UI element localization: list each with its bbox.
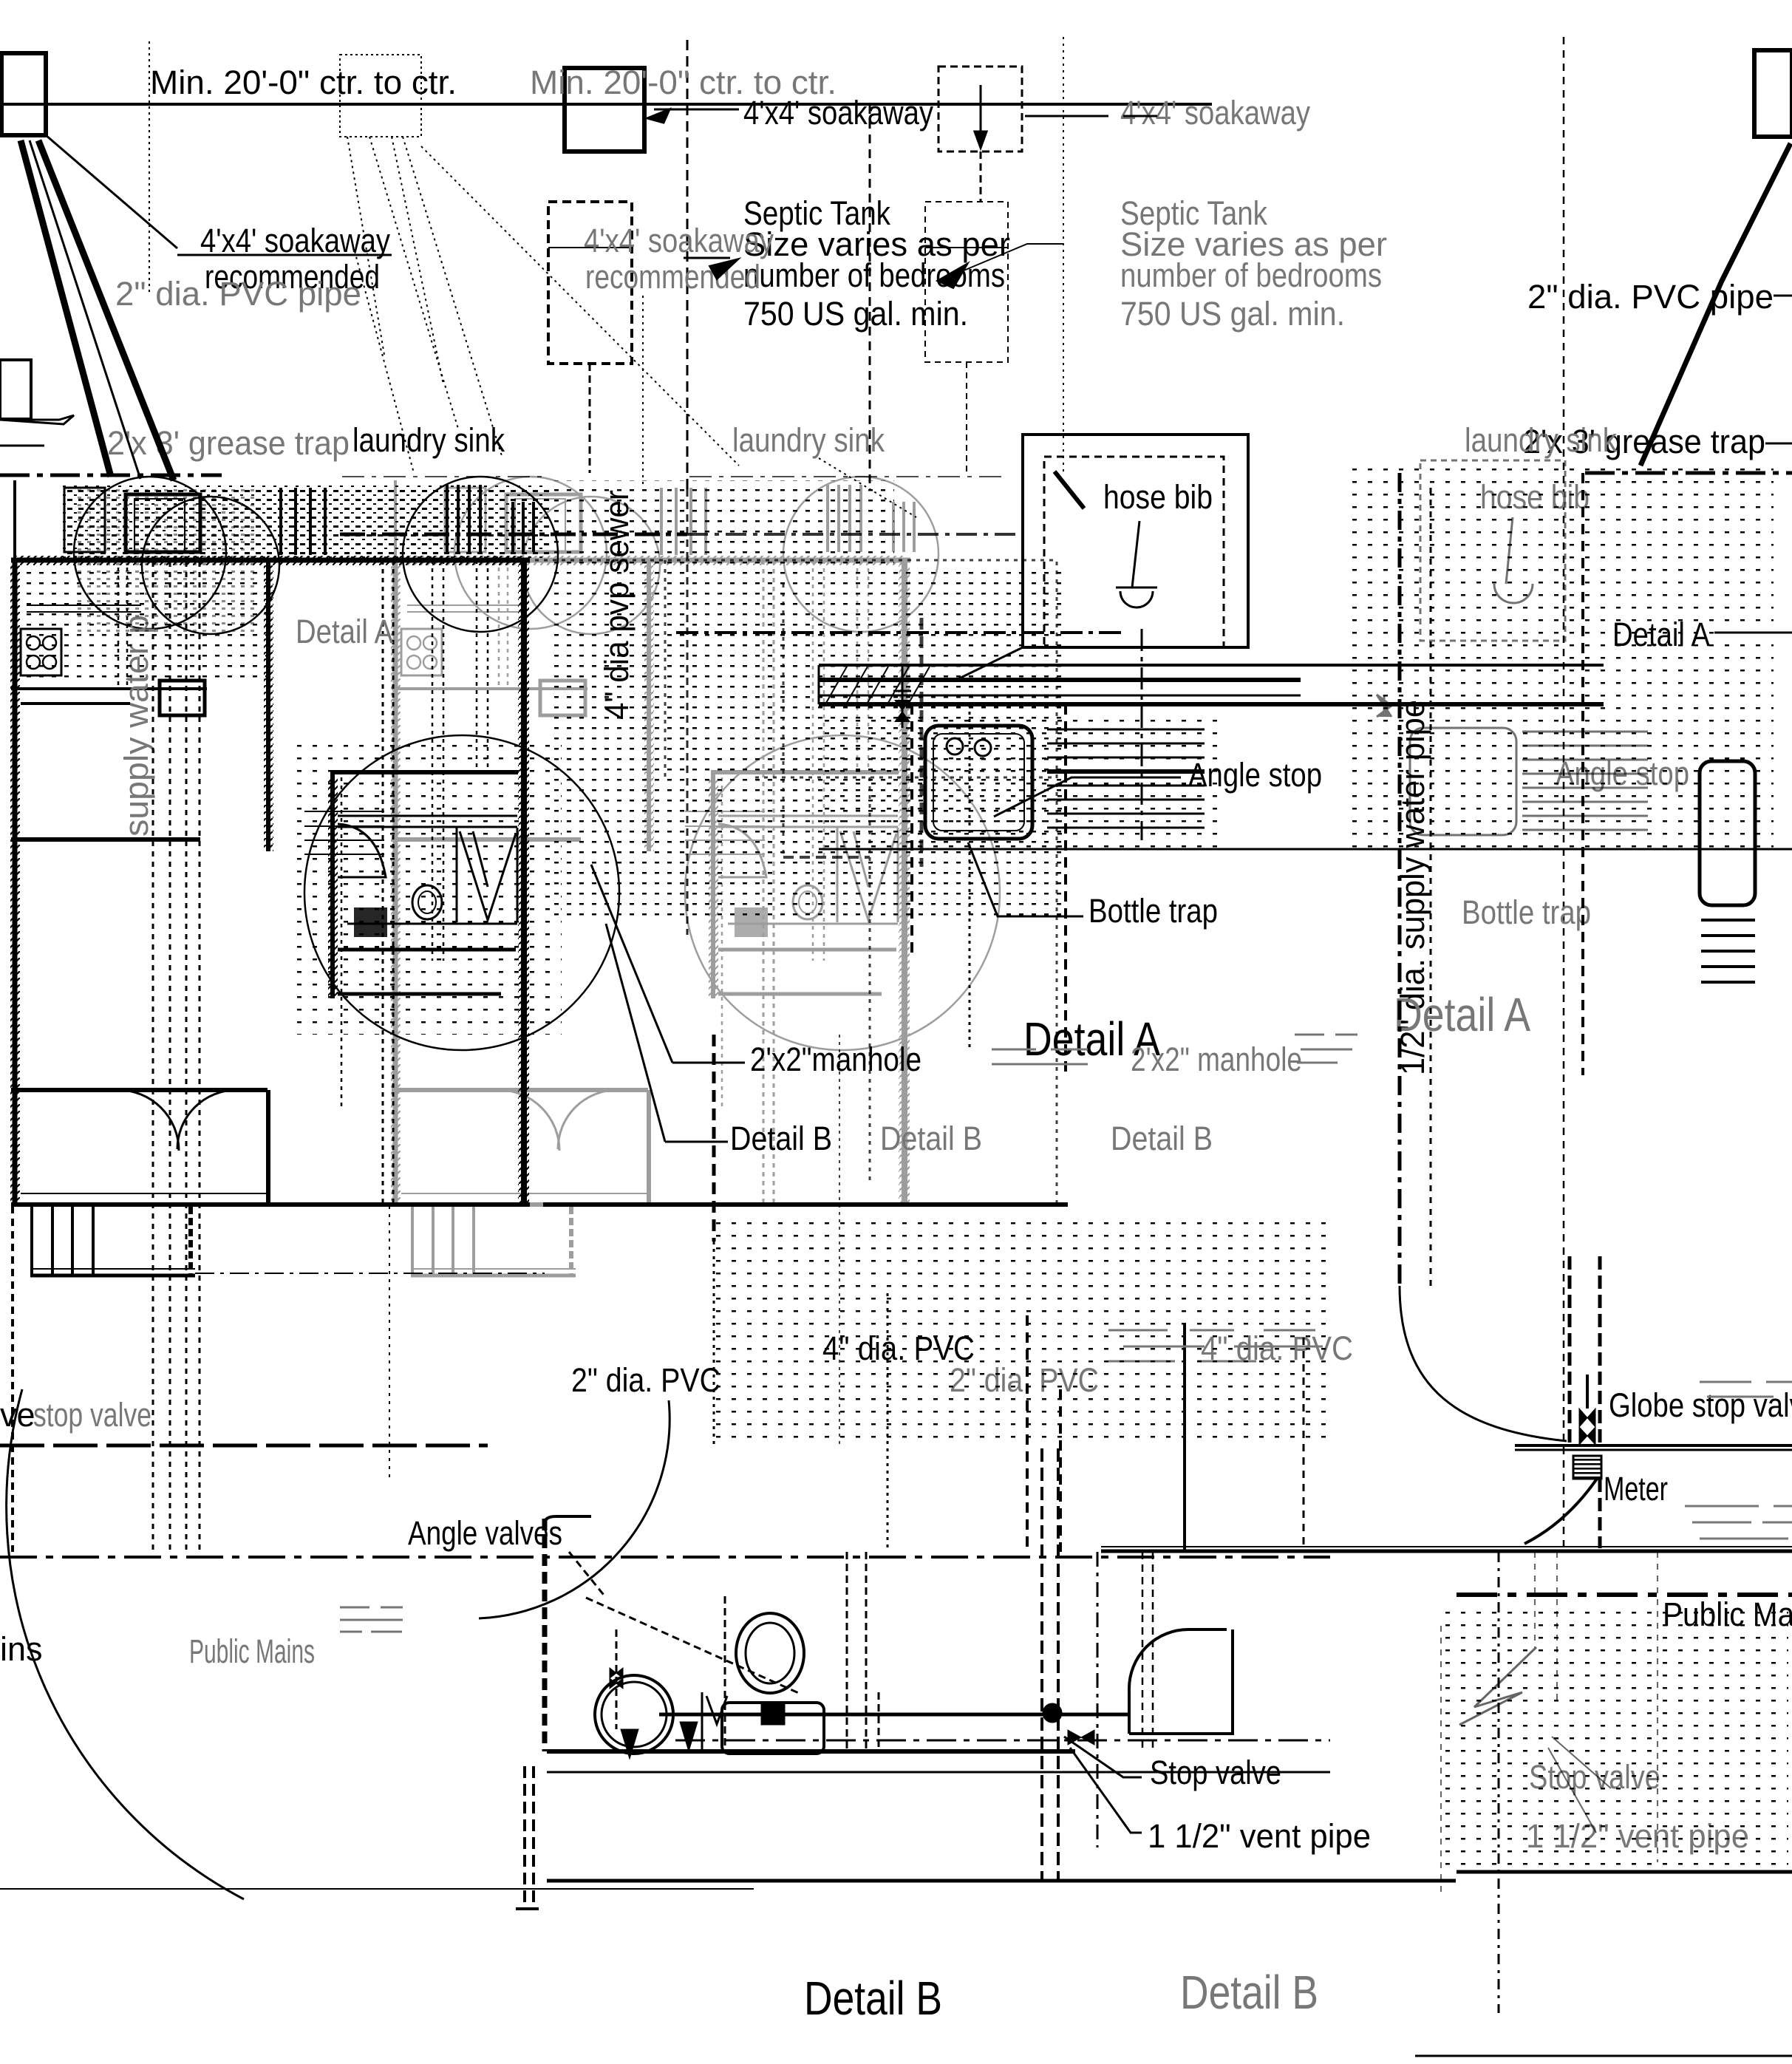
- svg-text:Min. 20'-0" ctr. to ctr.: Min. 20'-0" ctr. to ctr.: [530, 64, 837, 101]
- svg-text:laundry sink: laundry sink: [732, 421, 885, 459]
- svg-text:number of bedrooms: number of bedrooms: [743, 256, 1005, 294]
- svg-text:2" dia. PVC: 2" dia. PVC: [571, 1361, 720, 1399]
- svg-text:Detail B: Detail B: [804, 1972, 942, 2025]
- svg-text:Globe stop valve: Globe stop valve: [1609, 1386, 1792, 1424]
- svg-text:Bottle trap: Bottle trap: [1089, 892, 1218, 930]
- svg-text:Detail B: Detail B: [880, 1120, 982, 1157]
- svg-text:4'x4' soakaway: 4'x4' soakaway: [584, 222, 774, 259]
- svg-text:Detail B: Detail B: [1180, 1966, 1318, 2019]
- svg-text:laundry sink: laundry sink: [352, 421, 505, 459]
- svg-text:number of bedrooms: number of bedrooms: [1120, 256, 1382, 294]
- svg-text:Angle valves: Angle valves: [408, 1514, 562, 1552]
- svg-text:Min. 20'-0" ctr. to ctr.: Min. 20'-0" ctr. to ctr.: [150, 64, 457, 101]
- svg-text:2" dia. PVC pipe: 2" dia. PVC pipe: [115, 275, 361, 313]
- svg-text:750 US gal. min.: 750 US gal. min.: [1120, 295, 1345, 333]
- svg-text:Detail A: Detail A: [296, 613, 393, 650]
- svg-text:Detail B: Detail B: [1111, 1120, 1213, 1157]
- svg-text:ins: ins: [0, 1630, 43, 1668]
- svg-text:hose bib: hose bib: [1103, 478, 1213, 516]
- svg-text:2" dia. PVC pipe: 2" dia. PVC pipe: [1527, 278, 1774, 316]
- svg-text:Detail B: Detail B: [730, 1120, 832, 1157]
- svg-text:4'x4' soakaway: 4'x4' soakaway: [1120, 94, 1310, 132]
- svg-text:Meter: Meter: [1604, 1470, 1668, 1508]
- svg-text:750 US gal. min.: 750 US gal. min.: [743, 295, 968, 333]
- svg-text:laundry sink: laundry sink: [1465, 421, 1617, 459]
- svg-text:Bottle trap: Bottle trap: [1462, 893, 1591, 931]
- svg-text:4'x4' soakaway: 4'x4' soakaway: [200, 222, 390, 259]
- svg-text:2'x 3' grease trap: 2'x 3' grease trap: [107, 424, 350, 462]
- svg-text:Public Mains: Public Mains: [189, 1632, 315, 1670]
- svg-text:ve: ve: [0, 1396, 35, 1434]
- svg-text:2'x2"manhole: 2'x2"manhole: [750, 1040, 921, 1078]
- svg-text:stop valve: stop valve: [33, 1396, 151, 1434]
- svg-text:2'x2" manhole: 2'x2" manhole: [1131, 1040, 1302, 1078]
- svg-text:1 1/2" vent pipe: 1 1/2" vent pipe: [1148, 1817, 1371, 1855]
- svg-text:Detail A: Detail A: [1394, 988, 1530, 1041]
